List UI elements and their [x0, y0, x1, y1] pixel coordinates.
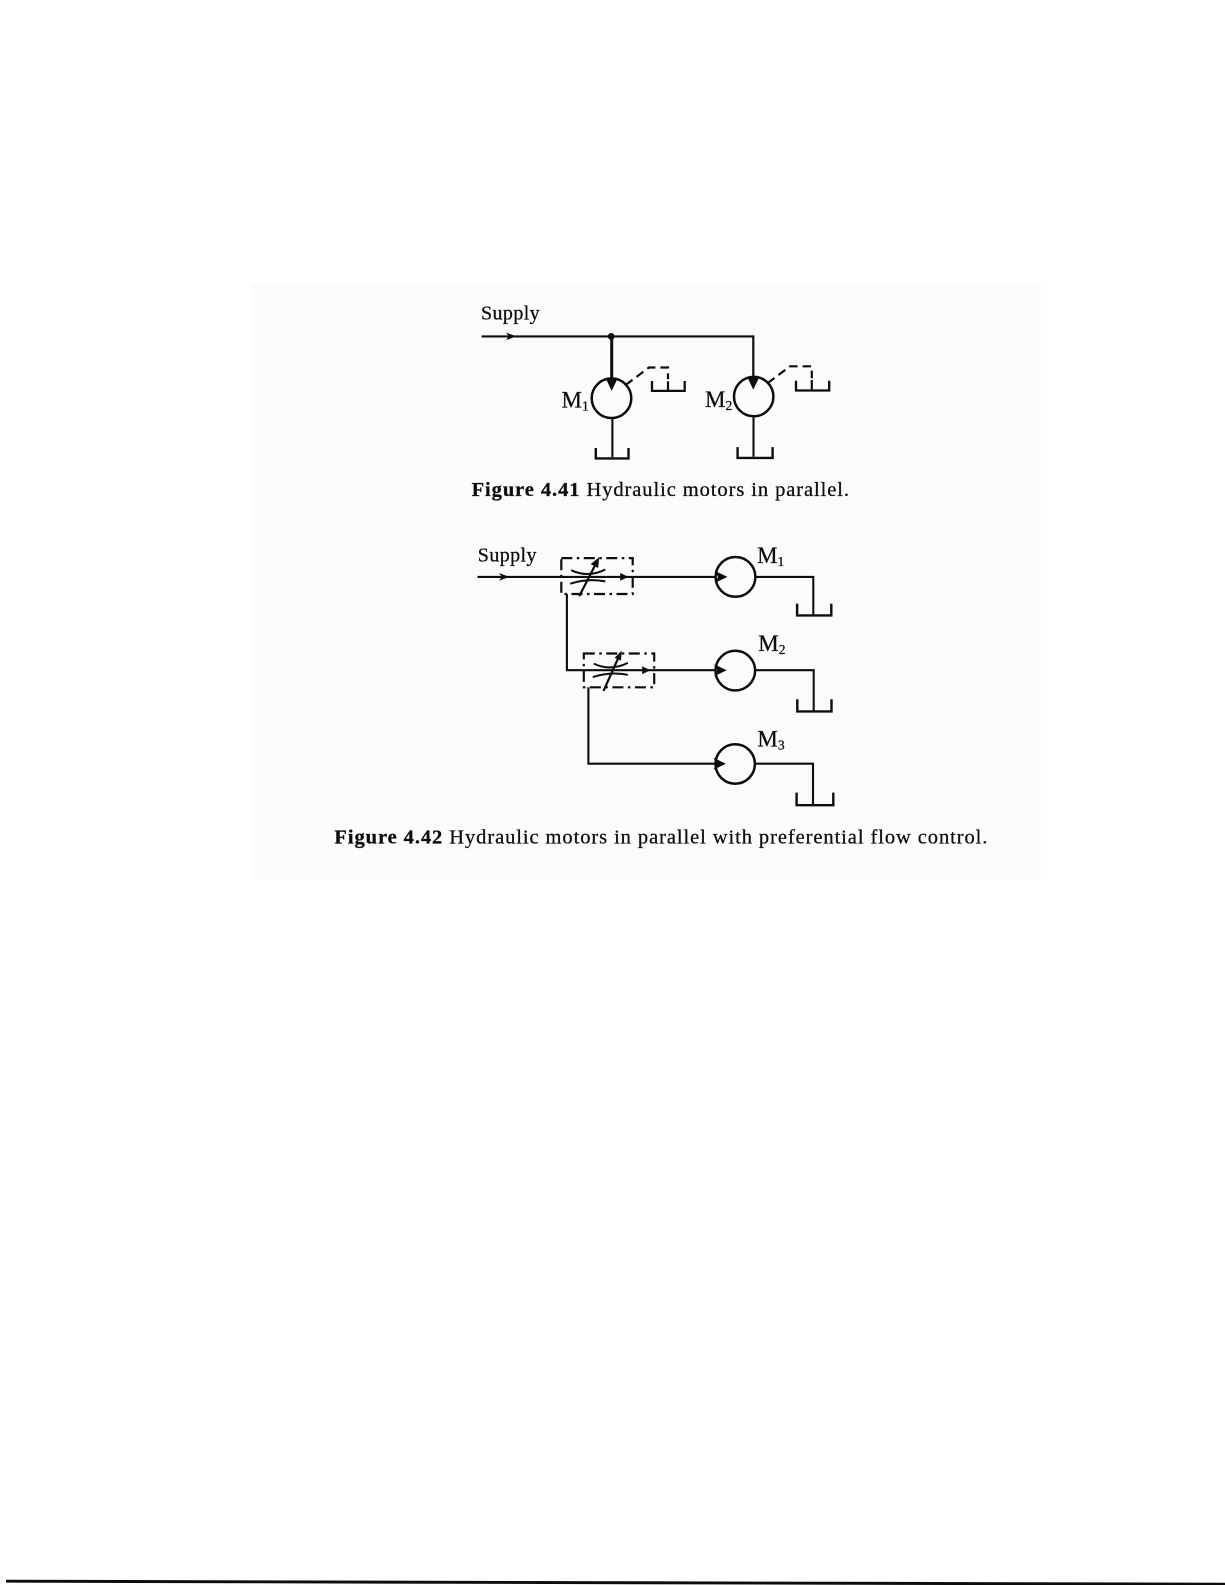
arrowhead inside flow control FC2: [642, 666, 650, 674]
arrowhead into motor M1 (fig 4.42): [715, 571, 728, 583]
arrowhead into motor M3: [713, 758, 726, 770]
arrowhead on supply line fig 4.42: [499, 573, 509, 581]
arrowhead into motor M2: [748, 378, 760, 390]
motor M3 circle: [716, 744, 755, 783]
svg-text:Supply: Supply: [478, 544, 537, 566]
wire: M2 return line: [752, 416, 754, 456]
flow control valve FC1 enclosure (dash-dot box): [561, 558, 632, 594]
wire: branch from FC2 down to motor M3: [588, 687, 715, 763]
FC1 restriction upper arc: [571, 570, 605, 575]
arrowhead on supply line fig 4.41: [506, 333, 516, 341]
drain reservoir of M2: [796, 381, 829, 391]
svg-text:Supply: Supply: [481, 303, 540, 325]
motor M2 circle: [734, 377, 773, 416]
M2 case drain dashed line: [768, 366, 812, 383]
wire: elbow drop to motor M2: [752, 335, 754, 379]
arrowhead inside flow control FC1: [620, 573, 628, 581]
wire: branch from FC1 down to second row: [567, 594, 716, 670]
FC2 restriction lower arc: [593, 674, 628, 678]
drain reservoir of M1: [652, 381, 685, 391]
FC1 restriction lower arc: [570, 580, 605, 584]
wire: M2 outlet to reservoir: [755, 670, 814, 710]
svg-text:Figure 4.41 Hydraulic motors: Figure 4.41 Hydraulic motors in parallel…: [472, 479, 850, 501]
motor M1 circle: [592, 378, 632, 418]
page footer rule: [6, 1581, 1225, 1584]
FC2 restriction upper arc: [594, 663, 628, 668]
drain pipe into reservoir (M2): [811, 380, 813, 390]
junction node fig 4.41: [608, 333, 615, 340]
reservoir M3: [797, 793, 834, 806]
FC2 variable adjust arrow: [604, 658, 619, 692]
wire: supply line fig 4.41: [482, 335, 754, 337]
reservoir under M1: [596, 448, 629, 458]
wire: M1 return line: [611, 418, 613, 457]
svg-text:Figure 4.42 Hydraulic motors: Figure 4.42 Hydraulic motors in parallel…: [334, 827, 988, 849]
flow control valve FC2 enclosure (dash-dot box): [584, 654, 654, 688]
arrowhead into motor M2 (fig 4.42): [714, 664, 727, 676]
motor M1 circle (fig 4.42): [716, 557, 756, 597]
reservoir M1 (fig 4.42): [797, 604, 831, 616]
FC1 variable adjust arrow: [579, 563, 596, 597]
reservoir under M2: [738, 447, 773, 458]
wire: drop to motor M1: [610, 336, 613, 380]
reservoir M2 (fig 4.42): [797, 699, 831, 711]
wire: M1 outlet to reservoir: [755, 577, 813, 615]
arrowhead into motor M1: [606, 379, 618, 391]
motor M2 circle (fig 4.42): [716, 651, 756, 691]
wire: M3 outlet to reservoir: [755, 764, 813, 805]
wire: supply flow line to motor M1 (fig 4.42): [478, 576, 716, 578]
drain pipe into reservoir (M1): [667, 381, 669, 390]
M1 case drain dashed line: [626, 368, 668, 385]
